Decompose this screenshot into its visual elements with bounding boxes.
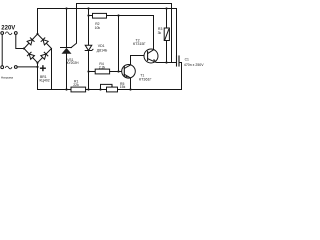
node: junction zener chain at top rail (87, 7, 89, 9)
wire: bridge bottom corner down to bottom rail (37, 63, 39, 90)
wire: R3 from top rail down (166, 9, 168, 29)
resistor R3 box (164, 28, 169, 41)
wire: bottom rail left part (38, 89, 72, 91)
wire: zener chain vertical (88, 9, 90, 46)
potentiometer R5 wiper (101, 84, 113, 89)
transistor T2 emitter with arrow (148, 59, 177, 63)
svg-text:Д814Б: Д814Б (97, 49, 108, 53)
wire: bridge right corner down to bottom rail (51, 49, 53, 90)
bridge rectifier BR1 diamond (24, 34, 52, 63)
svg-text:15k: 15k (120, 85, 126, 89)
node: junction R4 tap (87, 70, 89, 72)
diode BR1 top-right (41, 38, 48, 45)
transistor T2 base bar (147, 51, 149, 60)
resistor R2 left lead (89, 15, 93, 17)
terminal: 220V right circle (14, 32, 17, 35)
plus sign at bridge output (41, 66, 46, 71)
svg-text:КУ202Н: КУ202Н (67, 61, 80, 65)
diode BR1 top-left (27, 38, 34, 45)
potentiometer R5 box in bottom rail (107, 87, 118, 92)
svg-text:10k: 10k (95, 26, 101, 30)
svg-text:Нагрузка: Нагрузка (1, 76, 13, 80)
resistor R4 box (95, 69, 109, 74)
resistor R1 box (71, 87, 86, 92)
transistor T2 collector (148, 50, 154, 54)
wire: R2 output to T2 collector (107, 16, 154, 50)
thyristor VS1 triangle (62, 48, 72, 54)
node: junction R4 lead and T1 base feed (117, 70, 119, 72)
diode BR1 bottom-right (41, 52, 48, 59)
svg-text:470n x 250V: 470n x 250V (184, 63, 204, 67)
capacitor C1 right plate (178, 56, 180, 66)
node: bridge left corner junction (23, 47, 25, 49)
capacitor C1 left plate fed from top rail (176, 9, 178, 57)
svg-text:VD1: VD1 (98, 44, 105, 48)
wire: load right terminal to bridge bottom vertical (17, 66, 37, 68)
svg-text:КТ315Г: КТ315Г (133, 42, 146, 46)
node: junction R3 at top rail (165, 7, 167, 9)
node: bridge bottom corner junction (36, 62, 38, 64)
terminal: 220V left circle (1, 32, 4, 35)
wire: 220V right terminal down and right to bridge left corner (16, 35, 24, 49)
transistor T1 base bar (123, 67, 125, 77)
wire: T2 base to T1 collector (131, 55, 148, 57)
thyristor VS1 gate (71, 4, 172, 63)
terminal: load left circle (1, 66, 4, 69)
node: junction R5 wiper at bottom rail (99, 88, 101, 90)
AC tilde load (5, 66, 11, 69)
svg-text:220V: 220V (1, 26, 15, 32)
transistor T1 emitter with arrow (124, 74, 130, 89)
AC tilde top (5, 32, 11, 35)
svg-text:КЦ402: КЦ402 (40, 79, 50, 83)
thyristor VS1 anode wire (66, 9, 68, 48)
wire: R4 to T1 base (110, 71, 122, 73)
svg-text:3k: 3k (158, 31, 162, 35)
zener diode VD1 (85, 45, 92, 50)
wire: T1 base vertical feed (118, 16, 120, 72)
wire: R3 down to cap node (166, 41, 168, 63)
wire: 220V left terminal down to load left terminal (1, 35, 3, 66)
svg-text:22k: 22k (73, 83, 79, 87)
svg-text:2.2k: 2.2k (99, 65, 106, 69)
node: junction T1 base feed (117, 14, 119, 16)
node: junction load wire at bridge bottom vertical (36, 66, 38, 68)
svg-text:КТ361Г: КТ361Г (139, 77, 152, 81)
wire: bridge top corner up to top rail (38, 9, 177, 35)
node: junction thyristor cathode at rail (65, 88, 67, 90)
node: junction R2 tap (87, 14, 89, 16)
node: junction T1 emitter at bottom rail (129, 88, 131, 90)
node: junction R3 at cap node wire (165, 61, 167, 63)
wire: bottom rail right part (86, 89, 182, 91)
thyristor VS1 cathode bar (61, 47, 72, 49)
transistor T1 circle (122, 65, 136, 79)
node: junction thyristor anode at top rail (65, 7, 67, 9)
node: junction zener chain at bottom rail (87, 88, 89, 90)
transistor T1 collector (124, 56, 130, 69)
terminal: load right circle (14, 66, 17, 69)
wire: C1 right lead down to bottom rail (179, 63, 182, 90)
resistor R2 box (93, 13, 107, 18)
svg-text:C1: C1 (185, 58, 189, 62)
resistor R4 left lead (89, 71, 96, 73)
transistor T2 circle (144, 49, 158, 63)
diode BR1 bottom-left (27, 52, 34, 59)
node: bridge top corner junction (36, 33, 38, 35)
